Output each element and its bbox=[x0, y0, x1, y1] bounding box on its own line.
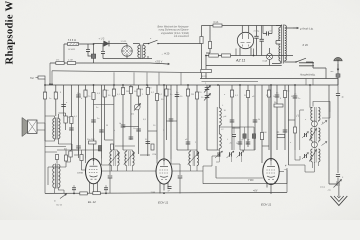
label value bbox=[134, 91, 137, 93]
svg-text:5 6 8 11: 5 6 8 11 bbox=[68, 40, 77, 42]
wire bbox=[48, 150, 66, 167]
wire bbox=[239, 85, 241, 147]
label value bbox=[294, 94, 297, 96]
wire bbox=[276, 85, 278, 150]
wire bbox=[45, 151, 57, 153]
resistor R51 bbox=[64, 116, 67, 123]
label P1 bbox=[131, 114, 135, 116]
label coil value 2 bbox=[224, 116, 227, 118]
transformer T3 secondary bbox=[58, 119, 60, 139]
wire bbox=[329, 152, 339, 196]
svg-text:10n 2kV: 10n 2kV bbox=[87, 139, 95, 141]
label value bbox=[235, 95, 239, 97]
resistor R28 bbox=[146, 88, 149, 95]
label value bbox=[159, 94, 163, 96]
label value bbox=[290, 142, 292, 144]
label value bbox=[180, 96, 183, 98]
label value bbox=[85, 90, 88, 92]
label value bbox=[77, 93, 81, 95]
rectifier tube AZ11 bbox=[237, 32, 253, 48]
wire bbox=[287, 85, 289, 165]
wire bbox=[160, 183, 168, 194]
wire bbox=[66, 150, 71, 162]
svg-text:ECH 11: ECH 11 bbox=[158, 200, 169, 204]
wire bbox=[312, 162, 318, 172]
wire bbox=[85, 85, 87, 159]
label value bbox=[187, 89, 191, 91]
label value bbox=[119, 123, 122, 125]
capacitor C29 bbox=[146, 142, 151, 144]
resistor R61 bbox=[151, 144, 154, 150]
label value bbox=[244, 95, 247, 97]
label value bbox=[60, 92, 62, 94]
wire bbox=[247, 85, 249, 147]
capacitor C80 variable bbox=[334, 180, 342, 188]
label value bbox=[258, 119, 261, 121]
wire bbox=[113, 85, 115, 150]
capacitor C85 bbox=[76, 146, 81, 148]
wire bbox=[187, 85, 189, 150]
resistor R8 bbox=[222, 54, 231, 57]
label value bbox=[130, 87, 134, 89]
wire bbox=[267, 182, 275, 195]
svg-text:am: am bbox=[331, 71, 334, 73]
label value bbox=[247, 140, 250, 142]
label value bbox=[133, 128, 137, 130]
capacitor C45 bbox=[293, 96, 298, 98]
coil core bbox=[216, 107, 218, 150]
label value bbox=[276, 93, 279, 95]
transformer T4 primary bbox=[53, 165, 55, 188]
wire bbox=[58, 113, 65, 130]
label value bbox=[176, 92, 179, 94]
capacitor C16 bbox=[76, 95, 81, 97]
resistor R12 bbox=[43, 92, 46, 99]
transformer T1 core bbox=[141, 45, 142, 59]
bus B+ rail bbox=[200, 78, 338, 80]
wire bbox=[45, 146, 66, 148]
wire bbox=[206, 26, 210, 54]
svg-text:#1M: #1M bbox=[152, 154, 156, 156]
label +253V bbox=[155, 61, 163, 63]
capacitor C91 block bbox=[243, 134, 246, 139]
label value bbox=[266, 95, 269, 97]
wire bbox=[284, 85, 286, 150]
label value bbox=[96, 107, 99, 109]
label bottom note bbox=[56, 205, 63, 207]
wire bbox=[294, 85, 296, 150]
capacitor C33 bbox=[175, 95, 180, 97]
tube V3 ECH11 bbox=[263, 159, 279, 185]
wire bbox=[163, 85, 165, 159]
wire bbox=[261, 85, 263, 159]
svg-text:1W4B: 1W4B bbox=[77, 173, 83, 175]
IF transformer can 3 secondary bbox=[318, 149, 320, 162]
wire bbox=[240, 48, 251, 56]
wire bbox=[203, 156, 219, 166]
svg-text:·+ U 2·: ·+ U 2· bbox=[98, 39, 105, 41]
bus main rail bbox=[45, 84, 338, 86]
label value bbox=[241, 140, 244, 142]
capacitor C81 bbox=[108, 176, 113, 178]
svg-text:1 5 11: 1 5 11 bbox=[121, 41, 128, 43]
resistor R41 bbox=[260, 133, 263, 140]
capacitor C20 bbox=[99, 130, 104, 132]
label value bbox=[322, 122, 324, 124]
wire bbox=[101, 85, 103, 159]
label lamp bbox=[263, 60, 268, 63]
annotation line 3 bbox=[161, 32, 189, 35]
label value bbox=[126, 91, 129, 93]
resistor R26 bbox=[137, 89, 140, 96]
wire bbox=[105, 185, 107, 193]
label value bbox=[66, 102, 68, 104]
wire arrow heater bbox=[293, 27, 299, 29]
transformer T2 secondary bbox=[285, 26, 287, 61]
label value bbox=[143, 119, 147, 121]
capacitor C88 bbox=[104, 188, 108, 190]
wire bbox=[64, 44, 94, 63]
wire rail decoupling bbox=[50, 63, 170, 65]
wire bbox=[234, 127, 254, 134]
node E bbox=[73, 192, 165, 194]
svg-text:(.nu.): (.nu.) bbox=[320, 187, 325, 189]
wire bbox=[93, 58, 95, 63]
annotation line 2 bbox=[159, 29, 190, 32]
wire bbox=[130, 85, 132, 140]
trimmer circle 1 bbox=[312, 121, 328, 127]
resistor R21 bbox=[103, 90, 106, 97]
label value bbox=[161, 99, 164, 101]
IF transformer can 3 primary bbox=[311, 149, 313, 162]
transformer T1 secondary bbox=[143, 46, 145, 58]
bandfilter coil L5 bbox=[188, 151, 199, 166]
wire bbox=[94, 43, 123, 45]
bus second rail bbox=[202, 81, 259, 83]
label value bbox=[117, 94, 121, 96]
label ausgleich bbox=[299, 73, 316, 76]
trimmer cap 3 bbox=[302, 153, 309, 160]
label value bbox=[114, 130, 116, 132]
label value bbox=[106, 125, 108, 127]
wire bbox=[122, 44, 127, 59]
capacitor C95 bbox=[336, 94, 340, 96]
label am bbox=[331, 71, 334, 73]
label 7MC bbox=[248, 179, 254, 182]
wire bbox=[207, 149, 219, 151]
label c90 bbox=[229, 143, 233, 145]
wire bbox=[234, 136, 254, 150]
label diode bbox=[98, 39, 105, 41]
wire bbox=[206, 56, 282, 66]
trimmer T-osc2 bbox=[227, 151, 235, 158]
ground bbox=[331, 196, 348, 206]
wire bbox=[36, 78, 46, 86]
svg-text:Ton: Ton bbox=[30, 77, 35, 80]
svg-text:2M: 2M bbox=[191, 94, 194, 96]
wire bbox=[269, 48, 271, 66]
wire bbox=[73, 185, 75, 193]
choke Dr bbox=[277, 134, 285, 137]
wire bbox=[114, 72, 181, 85]
svg-text:m: m bbox=[54, 201, 56, 203]
transformer T4 secondary bbox=[58, 165, 60, 188]
resistor R62 bbox=[294, 127, 297, 133]
label value bbox=[44, 92, 47, 94]
tube V2 ECH11 bbox=[156, 159, 172, 184]
resistor R54 bbox=[56, 155, 59, 160]
label value bbox=[54, 92, 58, 94]
label value bbox=[149, 88, 152, 90]
IF can 1 core bbox=[315, 107, 316, 121]
svg-text:g.Ampl.-Ltg.: g.Ampl.-Ltg. bbox=[300, 27, 314, 30]
wire bbox=[112, 150, 118, 171]
fuse F1 bbox=[213, 24, 222, 27]
label R3 bbox=[56, 60, 60, 62]
wire bbox=[140, 154, 150, 156]
IF can 3 arrow bbox=[309, 150, 316, 162]
resistor R50 bbox=[274, 104, 283, 107]
wire bbox=[157, 159, 171, 164]
bandfilter coil L3 bbox=[109, 151, 120, 166]
wire bbox=[236, 49, 254, 56]
label value bbox=[145, 139, 147, 141]
resistor R31 bbox=[165, 89, 168, 96]
capacitor C96 bbox=[336, 175, 340, 177]
wire bbox=[123, 150, 133, 171]
label value bbox=[263, 132, 267, 134]
wire bbox=[272, 26, 280, 64]
wire bbox=[179, 178, 181, 194]
transformer T1 primary bbox=[138, 46, 140, 58]
label value bbox=[280, 98, 282, 100]
wire bbox=[49, 63, 51, 84]
label heater line bbox=[300, 27, 314, 30]
capacitor C70 bbox=[168, 187, 172, 193]
svg-text:Dr.: Dr. bbox=[277, 131, 280, 134]
label fuse bbox=[214, 21, 219, 24]
coil L1 bbox=[219, 108, 221, 126]
resistor R17 bbox=[84, 90, 87, 97]
wire bbox=[104, 85, 106, 140]
label value bbox=[199, 92, 202, 94]
resistor R13 bbox=[54, 92, 57, 99]
label C95 bbox=[342, 97, 345, 99]
wire bbox=[51, 71, 53, 84]
label output bbox=[64, 149, 67, 151]
wire bbox=[78, 85, 80, 158]
label coil value bbox=[224, 110, 227, 112]
svg-text:W 23: W 23 bbox=[202, 76, 208, 78]
label V2 pin bbox=[151, 192, 156, 194]
wire bbox=[196, 85, 198, 156]
wire bbox=[177, 149, 188, 151]
label value bbox=[231, 90, 234, 92]
wire bbox=[133, 44, 148, 46]
wire bbox=[88, 44, 94, 56]
wire bbox=[313, 102, 330, 113]
wire bbox=[57, 149, 100, 151]
capacitor C61 variable bbox=[204, 94, 211, 101]
wire bbox=[90, 183, 98, 194]
wire bbox=[102, 53, 104, 58]
label value bbox=[205, 83, 207, 85]
wire bbox=[285, 25, 297, 29]
capacitor C78 bbox=[253, 120, 258, 122]
resistor R34 bbox=[186, 89, 189, 96]
label value bbox=[222, 105, 224, 107]
capacitor C38 bbox=[238, 142, 243, 144]
label S1 bbox=[121, 41, 128, 43]
wire bbox=[176, 85, 178, 150]
label value bbox=[151, 92, 155, 94]
node D bbox=[44, 84, 311, 86]
resistor R7 bbox=[209, 54, 219, 57]
wire bbox=[58, 144, 72, 150]
wire bbox=[263, 26, 272, 34]
wire bbox=[205, 66, 207, 70]
wire bbox=[262, 145, 269, 147]
label V3 nu bbox=[284, 169, 288, 171]
wire bbox=[44, 85, 46, 141]
wire bbox=[86, 159, 102, 166]
IF can 2 arrow bbox=[309, 129, 316, 141]
resistor R37 bbox=[230, 90, 233, 97]
wire bbox=[123, 126, 139, 128]
resistor R55 bbox=[69, 151, 72, 157]
capacitor C27 bbox=[136, 129, 141, 131]
label value bbox=[113, 89, 116, 91]
label #26 bbox=[303, 43, 309, 47]
label value bbox=[170, 94, 173, 96]
capacitor C35 bbox=[186, 142, 191, 144]
trimmer cap 2 bbox=[302, 132, 309, 139]
wire bbox=[337, 61, 339, 74]
wire bbox=[232, 127, 240, 129]
wire bbox=[102, 165, 111, 175]
label switch bbox=[150, 38, 152, 40]
label value bbox=[273, 96, 276, 98]
switch S1 rotary bbox=[122, 46, 133, 57]
capacitor C1 bbox=[86, 50, 90, 52]
resistor R22 bbox=[112, 89, 115, 96]
label value bbox=[122, 88, 126, 90]
wire bbox=[206, 55, 293, 57]
wire bbox=[242, 26, 248, 34]
wire bbox=[138, 85, 140, 154]
transformer T3 core bbox=[56, 118, 57, 140]
label value bbox=[142, 94, 144, 96]
wire bbox=[158, 43, 202, 45]
label value bbox=[205, 91, 207, 93]
IF transformer can 1 secondary bbox=[318, 108, 320, 121]
wire bbox=[122, 85, 124, 150]
wire bbox=[310, 85, 312, 108]
svg-text:0,1M: 0,1M bbox=[68, 60, 73, 62]
wire bbox=[203, 166, 287, 184]
wire bbox=[55, 85, 57, 116]
wire bbox=[206, 85, 208, 150]
wire grid line 2 bbox=[172, 170, 203, 172]
capacitor C19 bbox=[91, 120, 96, 122]
svg-text:Ausgleichsltg.: Ausgleichsltg. bbox=[299, 73, 316, 76]
wire bbox=[165, 85, 167, 140]
capacitor C32 bbox=[169, 119, 174, 121]
label V2 bbox=[158, 200, 169, 204]
label value bbox=[224, 94, 226, 96]
svg-text:2x50μ: 2x50μ bbox=[254, 31, 261, 33]
label V1 bbox=[88, 200, 96, 204]
IF transformer can 2 secondary bbox=[318, 128, 320, 141]
label value bbox=[153, 125, 156, 127]
label value bbox=[163, 130, 165, 132]
svg-text:+253 V: +253 V bbox=[155, 61, 163, 63]
IF can 2 core bbox=[315, 128, 316, 142]
svg-text:2M: 2M bbox=[126, 91, 129, 93]
resistor R10 bbox=[38, 76, 45, 79]
label value bbox=[81, 98, 83, 100]
label ground nu bbox=[320, 187, 325, 189]
resistor R5 bbox=[200, 37, 203, 44]
wire bbox=[262, 85, 271, 163]
wire bbox=[216, 156, 241, 162]
capacitor C82 bbox=[178, 176, 183, 178]
resistor R23 bbox=[121, 88, 124, 95]
transformer T2 primary upper bbox=[279, 28, 281, 41]
bottom bus bbox=[45, 192, 287, 193]
wire bbox=[240, 147, 255, 150]
antenna bbox=[334, 57, 342, 61]
resistor R3 bbox=[56, 62, 64, 65]
diode D1 bbox=[104, 41, 109, 47]
label nu3 bbox=[328, 190, 332, 192]
resistor R15 bbox=[70, 117, 73, 124]
wire bbox=[70, 85, 72, 150]
label Dr bbox=[277, 131, 280, 134]
wire bbox=[268, 85, 270, 150]
loudspeaker bbox=[22, 118, 37, 137]
wire bbox=[337, 79, 339, 86]
label V3 bbox=[261, 202, 272, 206]
svg-text:W: W bbox=[106, 125, 108, 127]
label pointer bbox=[161, 52, 170, 56]
IF transformer can 1 primary bbox=[311, 108, 313, 121]
label C96 bbox=[342, 177, 344, 179]
trimmer T-osc1 bbox=[215, 151, 223, 158]
node C bbox=[253, 55, 255, 57]
wire bbox=[285, 61, 296, 63]
wire bbox=[63, 85, 65, 116]
wire bbox=[45, 116, 54, 141]
wire bbox=[218, 85, 220, 156]
wire feed bbox=[219, 126, 254, 128]
resistor R9 bbox=[201, 69, 212, 72]
wire bbox=[103, 56, 152, 59]
resistor R6 bbox=[208, 42, 211, 49]
IF transformer can 2 primary bbox=[311, 128, 313, 141]
svg-text:E 5011: E 5011 bbox=[69, 49, 77, 51]
svg-text:Rhapsodie W: Rhapsodie W bbox=[4, 0, 15, 64]
capacitor C75 bbox=[129, 137, 134, 139]
wire bbox=[93, 44, 95, 54]
trimmer circle 2 bbox=[312, 142, 328, 148]
transformer T2 core bbox=[282, 25, 284, 64]
capacitor C14 bbox=[61, 105, 66, 107]
wire bbox=[201, 26, 203, 79]
label value bbox=[140, 89, 143, 91]
label value bbox=[97, 93, 101, 95]
wire bbox=[37, 123, 45, 130]
